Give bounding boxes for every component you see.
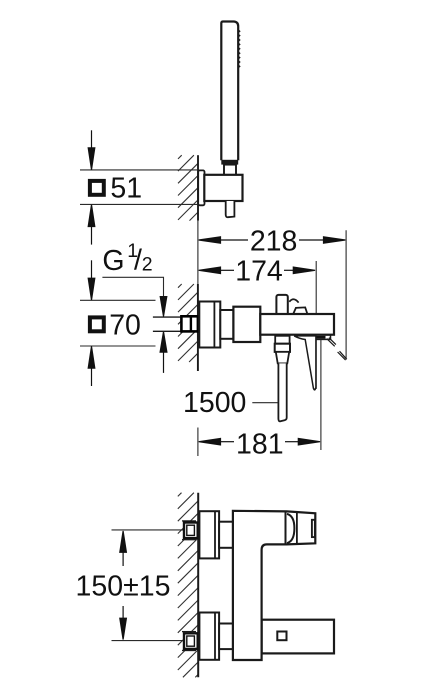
dimension 70 arrow up [88,346,95,386]
dimension 150 arrows [120,531,127,640]
svg-text:218: 218 [250,225,298,257]
dimension 51 arrow down [88,130,95,169]
svg-text:174: 174 [235,256,283,288]
svg-text:181: 181 [236,428,284,460]
bottom pipe [219,624,233,650]
wall face line (top view) [197,155,199,220]
top pipe [219,522,233,548]
G 1/2 arrow down to pipe [160,297,167,317]
holder block [204,175,242,201]
mixer escutcheon (middle view) [199,302,220,348]
hose [278,363,286,421]
dimension 174 [199,267,315,273]
spray lines [327,338,347,360]
G 1/2 label [102,240,152,277]
handle slot [312,520,315,537]
wall hatching (middle view) [178,284,198,362]
dimension 51 extension line bottom [80,203,198,205]
neck [220,310,233,339]
mixer body front view [233,511,315,660]
hose fitting 2 [275,344,290,352]
dimension 174 right extension line [315,261,317,389]
dimension 70 extension line top [80,299,156,301]
escutcheon inner line [213,302,215,348]
lever base on body [293,307,308,314]
dimension 70 extension line bottom [80,345,156,347]
main body bar [260,314,334,335]
svg-text:2: 2 [142,254,153,276]
handle divider [296,513,298,544]
hose fitting 1 [275,336,289,344]
outlet dark band [317,336,326,339]
1500 leader line [252,402,278,404]
bottom escutcheon inner line [214,613,216,660]
spout [262,620,334,654]
svg-text:70: 70 [109,309,141,341]
dimension 181 right extension [320,340,322,450]
G 1/2 arrow up from pipe [160,332,167,373]
dimension 218 [199,237,346,243]
outlet under bar [312,335,331,339]
svg-text:150±15: 150±15 [76,571,171,603]
supply pipe lines [153,317,182,331]
spray face serration [238,29,241,69]
top union nut [182,521,198,540]
body right edge over spout [261,620,263,654]
shower holder escutcheon (top view) [198,170,204,205]
cartridge cap edge [285,512,287,544]
hose stub under holder [226,201,235,217]
svg-text:/: / [134,245,142,277]
dimension 51 extension line top [80,169,198,171]
lever blade (middle view) [294,336,316,390]
dimension 181 left extension [197,428,199,457]
dimension 70 arrow down [88,260,95,300]
wall face line (middle view) [197,284,199,371]
valve block [233,307,260,342]
union inner line [190,316,192,331]
square symbol for 70 [90,317,104,331]
wall hatching (top view) [178,155,198,220]
svg-text:G: G [102,245,124,277]
hand shower stick [221,22,238,161]
G 1/2 leader line [102,277,163,297]
wall hatching (bottom view) [178,493,198,678]
square symbol for 51 [90,181,104,195]
bottom union nut [182,632,198,651]
dimension 150 extension bottom [112,640,184,642]
bottom escutcheon (bottom view) [199,613,219,660]
svg-text:1500: 1500 [183,387,246,419]
hose taper [276,352,289,364]
dimension 150 extension top [112,529,184,531]
lever grip curve [289,299,298,302]
svg-text:51: 51 [110,173,142,205]
spout square port [277,632,286,641]
cartridge dome [287,514,294,543]
union in wall (thick) [181,316,198,331]
top escutcheon (bottom view) [199,511,219,558]
dimension 51 arrow up [88,205,95,245]
handle knob (middle view) [276,295,287,315]
shower grip joint band [221,160,238,165]
top escutcheon inner line [214,511,216,558]
shower lower cone [224,165,236,177]
left extension line between views [197,221,199,284]
dimension 218 right extension line [345,230,347,358]
dimension 181 [199,439,320,445]
wall face line (bottom view) [197,493,199,678]
